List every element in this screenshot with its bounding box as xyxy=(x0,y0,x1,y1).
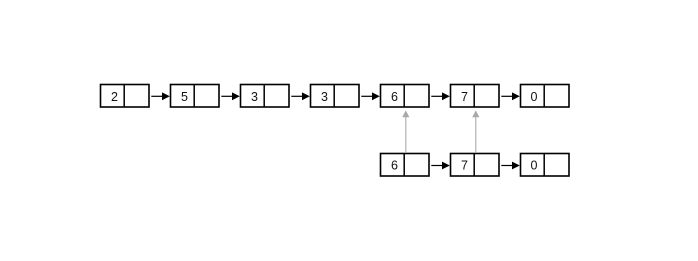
svg-text:6: 6 xyxy=(391,159,398,173)
node B3 (bottom list, value 0) xyxy=(521,153,570,177)
node A3 (top list, value 3) xyxy=(241,84,290,108)
node A2 (top list, value 5) xyxy=(171,84,220,108)
node B2 (bottom list, value 7) xyxy=(451,153,500,177)
node A6 (top list, value 7) xyxy=(451,84,500,108)
gray wire arrow B1 up to A5 xyxy=(402,110,409,152)
svg-text:3: 3 xyxy=(321,90,328,104)
svg-text:0: 0 xyxy=(531,90,538,104)
wire arrow B2 to B3 xyxy=(501,162,520,170)
wire arrow A6 to A7 xyxy=(501,92,520,100)
svg-text:6: 6 xyxy=(391,90,398,104)
node A7 (top list, value 0) xyxy=(521,84,570,108)
gray wire arrow B2 up to A6 xyxy=(472,110,479,152)
node A4 (top list, value 3) xyxy=(311,84,360,108)
wire arrow A5 to A6 xyxy=(431,92,450,100)
svg-text:3: 3 xyxy=(251,90,258,104)
svg-text:7: 7 xyxy=(461,90,468,104)
node B1 (bottom list, value 6) xyxy=(381,153,430,177)
svg-text:0: 0 xyxy=(531,159,538,173)
svg-text:2: 2 xyxy=(111,90,118,104)
node A1 (top list, value 2) xyxy=(101,84,150,108)
svg-text:5: 5 xyxy=(181,90,188,104)
node A5 (top list, value 6) xyxy=(381,84,430,108)
wire arrow A4 to A5 xyxy=(361,92,380,100)
wire arrow A2 to A3 xyxy=(221,92,240,100)
wire arrow B1 to B2 xyxy=(431,162,450,170)
wire arrow A3 to A4 xyxy=(291,92,310,100)
wire arrow A1 to A2 xyxy=(151,92,170,100)
svg-text:7: 7 xyxy=(461,159,468,173)
